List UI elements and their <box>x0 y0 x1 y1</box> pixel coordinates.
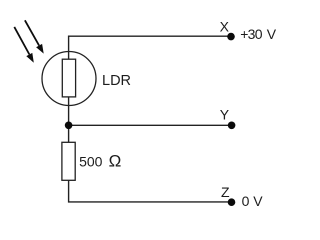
svg-text:500: 500 <box>79 154 103 170</box>
svg-text:LDR: LDR <box>102 73 131 89</box>
svg-text:Y: Y <box>220 106 230 122</box>
svg-text:V: V <box>267 26 277 42</box>
svg-text:X: X <box>220 19 230 35</box>
svg-text:+30: +30 <box>240 26 263 42</box>
svg-text:Z: Z <box>221 184 230 200</box>
svg-text:0 V: 0 V <box>242 193 264 209</box>
svg-text:Ω: Ω <box>109 152 122 171</box>
